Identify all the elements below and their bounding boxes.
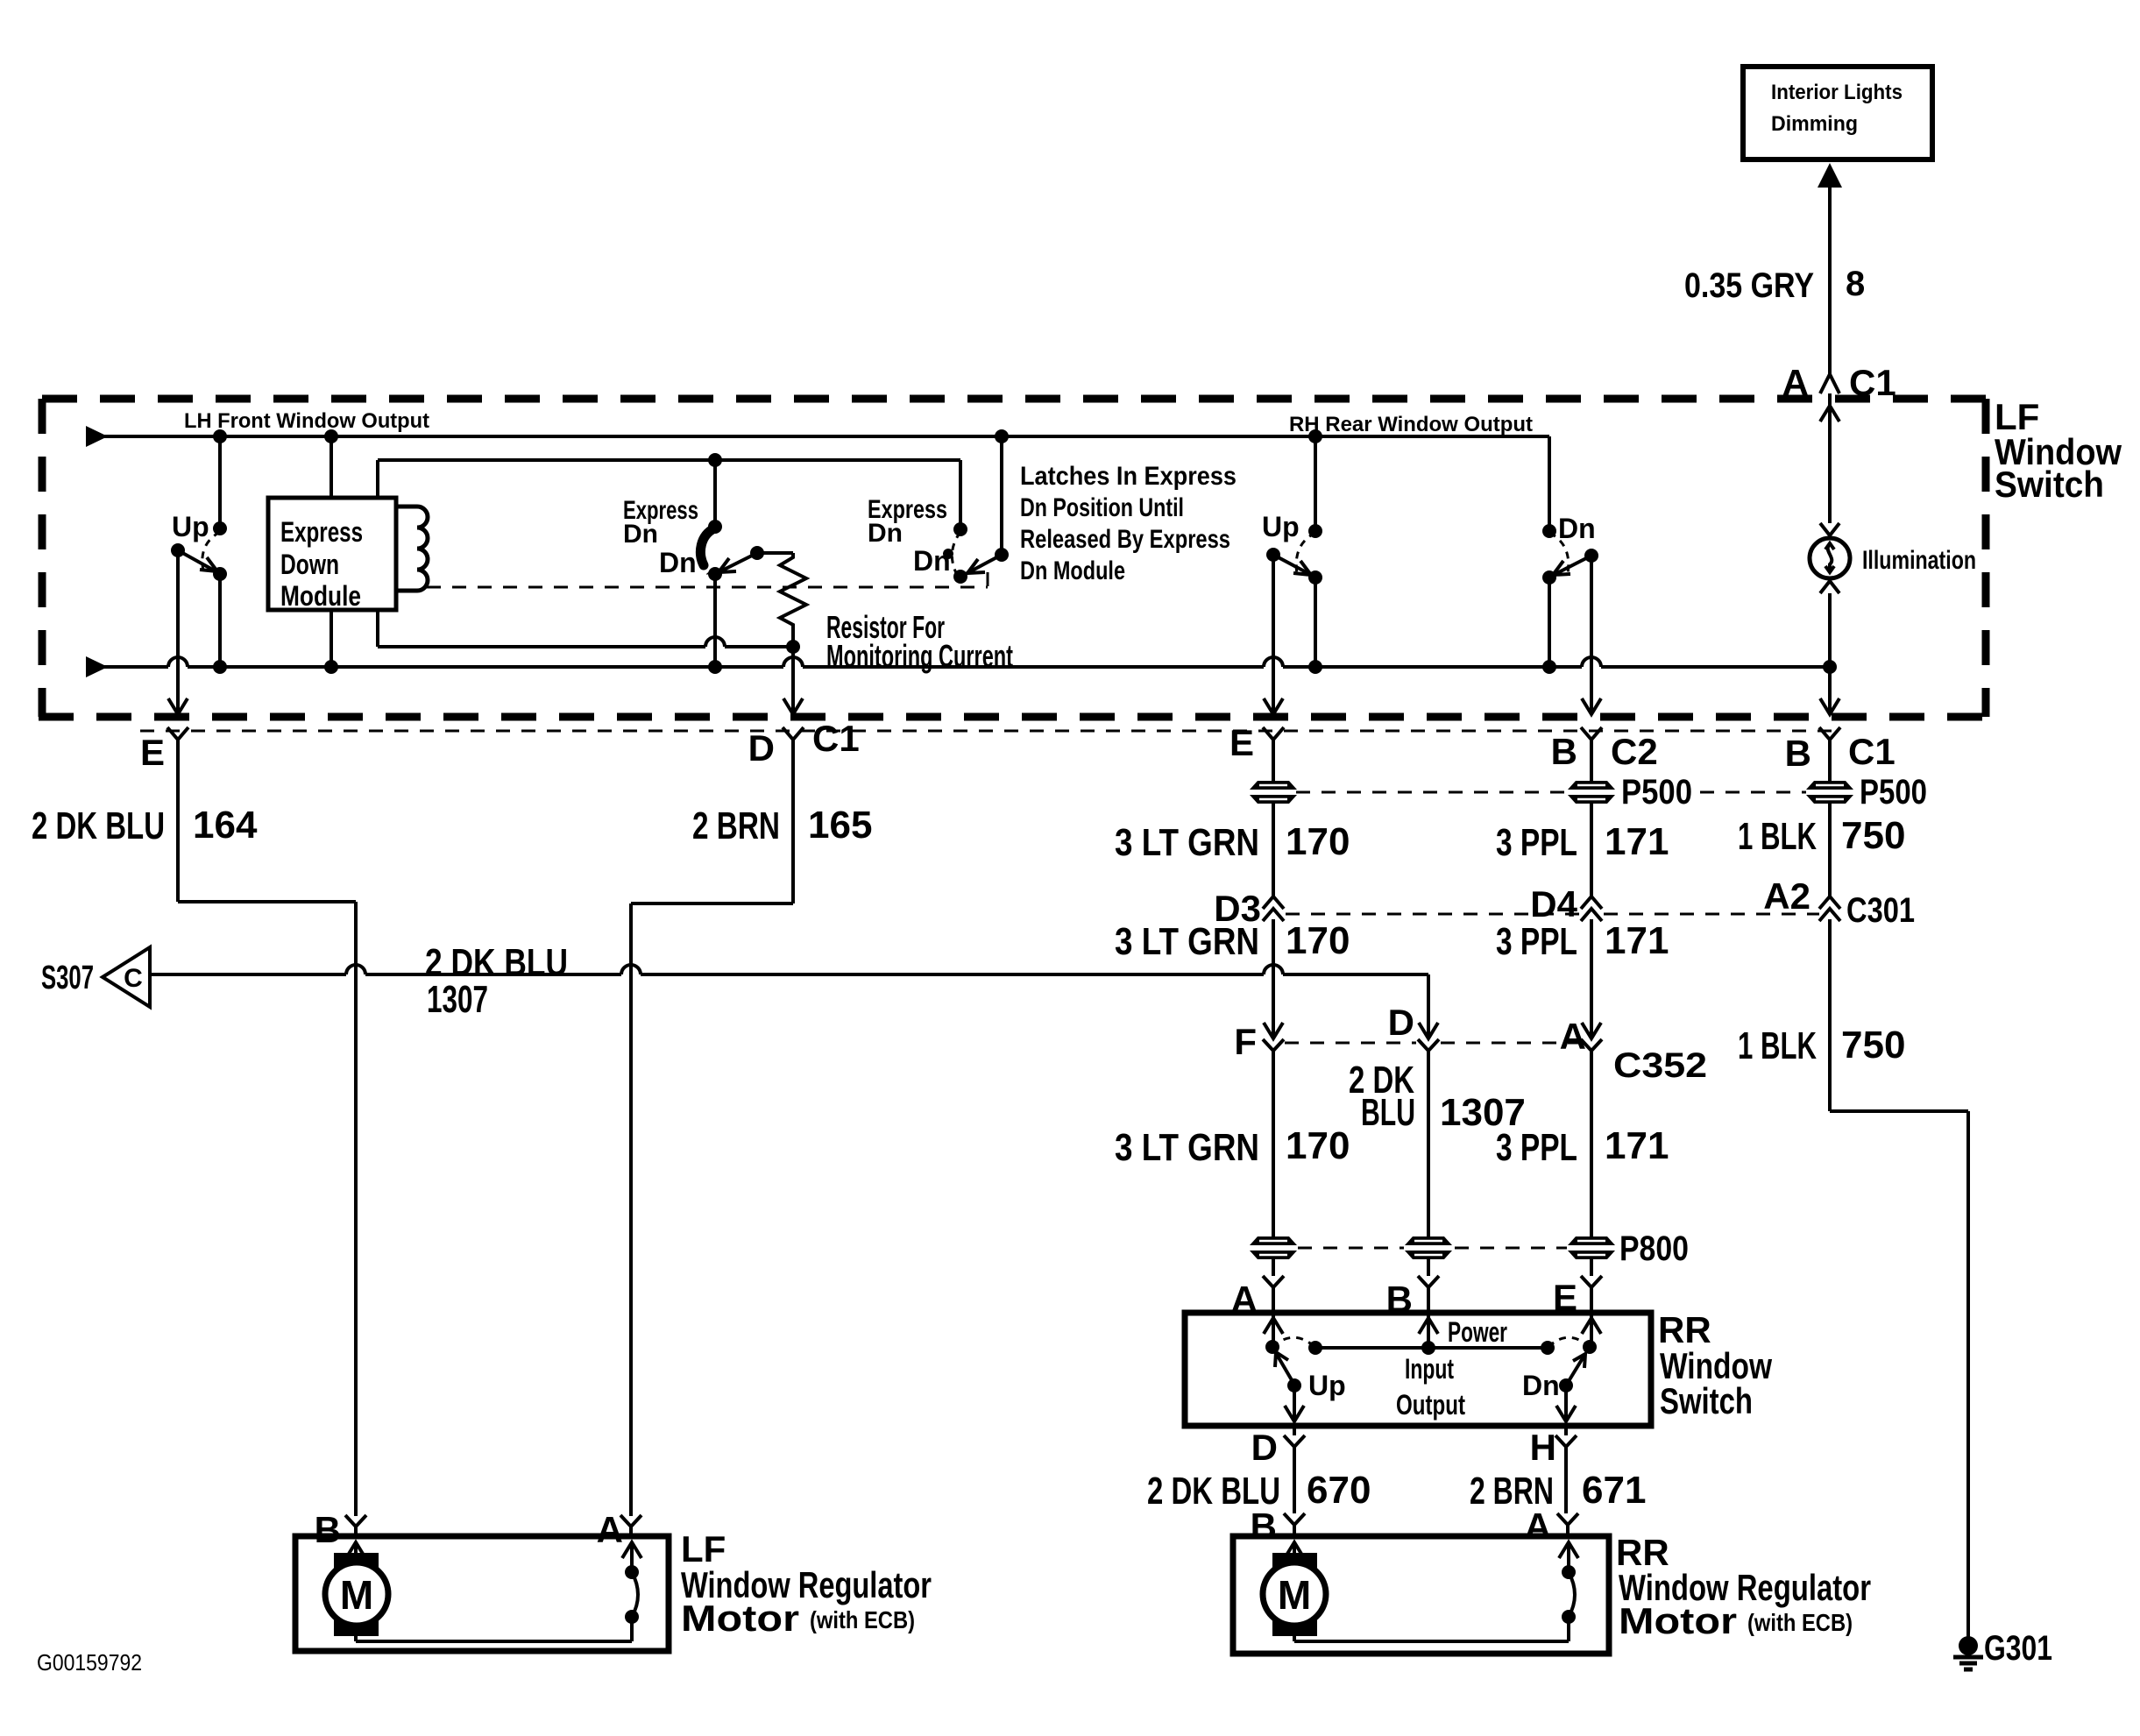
svg-text:1307: 1307 xyxy=(1440,1091,1526,1134)
svg-text:Up: Up xyxy=(1262,511,1300,542)
svg-text:750: 750 xyxy=(1841,1024,1905,1066)
svg-text:Motor: Motor xyxy=(681,1598,799,1639)
svg-text:A: A xyxy=(1782,362,1809,403)
svg-text:B: B xyxy=(1386,1279,1413,1320)
svg-text:1307: 1307 xyxy=(427,978,488,1021)
svg-text:Interior Lights: Interior Lights xyxy=(1771,81,1903,104)
svg-text:E: E xyxy=(140,732,165,773)
svg-text:Dn Module: Dn Module xyxy=(1020,556,1125,585)
svg-text:P500: P500 xyxy=(1860,773,1927,811)
svg-text:2 DK BLU: 2 DK BLU xyxy=(32,804,165,847)
svg-text:B: B xyxy=(315,1509,341,1550)
svg-text:171: 171 xyxy=(1605,919,1669,962)
svg-text:3 LT GRN: 3 LT GRN xyxy=(1115,821,1259,864)
svg-text:B: B xyxy=(1785,733,1811,774)
svg-text:670: 670 xyxy=(1307,1469,1371,1512)
svg-text:Motor: Motor xyxy=(1619,1600,1737,1641)
svg-text:C: C xyxy=(124,964,143,993)
svg-text:P800: P800 xyxy=(1619,1229,1689,1268)
svg-text:C1: C1 xyxy=(1848,731,1896,772)
svg-text:Up: Up xyxy=(1308,1370,1346,1401)
svg-text:D3: D3 xyxy=(1214,888,1261,929)
svg-text:3 PPL: 3 PPL xyxy=(1496,920,1577,963)
svg-text:Dn: Dn xyxy=(913,545,951,577)
svg-text:Dn: Dn xyxy=(659,547,697,578)
svg-text:(with ECB): (with ECB) xyxy=(810,1606,915,1633)
svg-text:Monitoring Current: Monitoring Current xyxy=(826,638,1013,674)
svg-text:LF: LF xyxy=(681,1528,726,1569)
svg-text:170: 170 xyxy=(1286,1124,1350,1167)
svg-text:G00159792: G00159792 xyxy=(37,1649,142,1676)
svg-text:Dimming: Dimming xyxy=(1771,112,1858,136)
svg-text:170: 170 xyxy=(1286,820,1350,863)
svg-text:A: A xyxy=(1231,1279,1258,1320)
svg-text:B: B xyxy=(1551,731,1577,772)
svg-text:C301: C301 xyxy=(1846,891,1915,930)
svg-text:A2: A2 xyxy=(1763,875,1810,917)
svg-text:Input: Input xyxy=(1405,1353,1454,1385)
svg-text:Down: Down xyxy=(280,549,339,580)
svg-text:A: A xyxy=(1525,1506,1551,1547)
svg-text:A: A xyxy=(1560,1016,1586,1057)
svg-text:Module: Module xyxy=(280,580,361,612)
svg-text:C1: C1 xyxy=(812,718,860,759)
svg-text:P500: P500 xyxy=(1621,773,1692,811)
svg-text:Dn: Dn xyxy=(1558,513,1596,544)
svg-text:C2: C2 xyxy=(1611,731,1658,772)
svg-text:LH Front Window Output: LH Front Window Output xyxy=(184,409,429,433)
svg-text:671: 671 xyxy=(1582,1469,1646,1512)
svg-text:G301: G301 xyxy=(1984,1629,2052,1668)
svg-text:3 PPL: 3 PPL xyxy=(1496,821,1577,864)
svg-text:A: A xyxy=(597,1509,623,1550)
svg-text:Switch: Switch xyxy=(1660,1380,1753,1421)
svg-text:Illumination: Illumination xyxy=(1862,546,1976,575)
svg-text:Power: Power xyxy=(1448,1316,1507,1348)
svg-text:Output: Output xyxy=(1396,1389,1465,1421)
svg-text:D: D xyxy=(1251,1427,1278,1468)
svg-text:171: 171 xyxy=(1605,820,1669,863)
svg-text:E: E xyxy=(1553,1277,1577,1318)
svg-text:M: M xyxy=(340,1572,373,1618)
svg-text:750: 750 xyxy=(1841,814,1905,857)
svg-text:H: H xyxy=(1530,1427,1556,1468)
svg-text:D: D xyxy=(1388,1002,1414,1043)
svg-text:1 BLK: 1 BLK xyxy=(1738,815,1817,858)
svg-text:2 BRN: 2 BRN xyxy=(692,804,780,847)
svg-text:Dn: Dn xyxy=(868,519,903,548)
svg-text:E: E xyxy=(1229,722,1254,763)
svg-text:Dn: Dn xyxy=(1522,1370,1560,1401)
svg-text:Express: Express xyxy=(280,516,363,548)
svg-text:171: 171 xyxy=(1605,1124,1669,1167)
svg-text:164: 164 xyxy=(193,804,258,847)
svg-text:Released By Express: Released By Express xyxy=(1020,525,1230,554)
svg-text:D: D xyxy=(748,727,775,769)
svg-text:BLU: BLU xyxy=(1361,1091,1415,1134)
svg-text:Dn Position Until: Dn Position Until xyxy=(1020,493,1184,522)
svg-text:1 BLK: 1 BLK xyxy=(1738,1024,1817,1067)
svg-text:C1: C1 xyxy=(1849,362,1896,403)
svg-text:Switch: Switch xyxy=(1995,464,2104,505)
svg-text:M: M xyxy=(1278,1572,1311,1618)
svg-text:170: 170 xyxy=(1286,919,1350,962)
svg-text:3 LT GRN: 3 LT GRN xyxy=(1115,1126,1259,1169)
svg-text:D4: D4 xyxy=(1530,883,1577,925)
svg-text:Dn: Dn xyxy=(623,520,658,549)
svg-text:(with ECB): (with ECB) xyxy=(1747,1609,1853,1636)
svg-text:Latches In Express: Latches In Express xyxy=(1020,462,1237,491)
svg-text:0.35 GRY: 0.35 GRY xyxy=(1684,266,1814,305)
svg-text:C352: C352 xyxy=(1613,1046,1707,1085)
svg-text:F: F xyxy=(1234,1021,1257,1062)
svg-text:S307: S307 xyxy=(41,960,94,996)
svg-text:Up: Up xyxy=(172,511,209,542)
svg-text:RH Rear Window Output: RH Rear Window Output xyxy=(1289,413,1533,436)
svg-text:165: 165 xyxy=(808,804,872,847)
svg-text:B: B xyxy=(1251,1506,1277,1547)
svg-text:RR: RR xyxy=(1658,1309,1711,1350)
svg-text:8: 8 xyxy=(1846,265,1865,303)
